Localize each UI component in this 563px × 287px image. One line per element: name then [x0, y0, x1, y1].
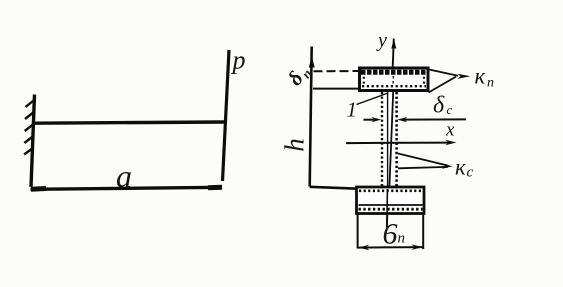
svg-text:к: к: [455, 155, 466, 180]
svg-text:y: y: [376, 30, 387, 52]
svg-text:6: 6: [383, 218, 398, 251]
svg-text:δ: δ: [433, 93, 445, 119]
svg-text:a: a: [116, 158, 132, 194]
svg-text:с: с: [467, 165, 474, 181]
svg-text:к: к: [475, 64, 486, 89]
svg-text:п: п: [487, 76, 494, 91]
svg-text:п: п: [398, 231, 406, 247]
svg-text:x: x: [445, 120, 455, 141]
svg-text:с: с: [447, 102, 453, 117]
svg-text:h: h: [280, 138, 310, 152]
svg-text:p: p: [231, 46, 246, 75]
svg-text:1: 1: [347, 98, 358, 122]
